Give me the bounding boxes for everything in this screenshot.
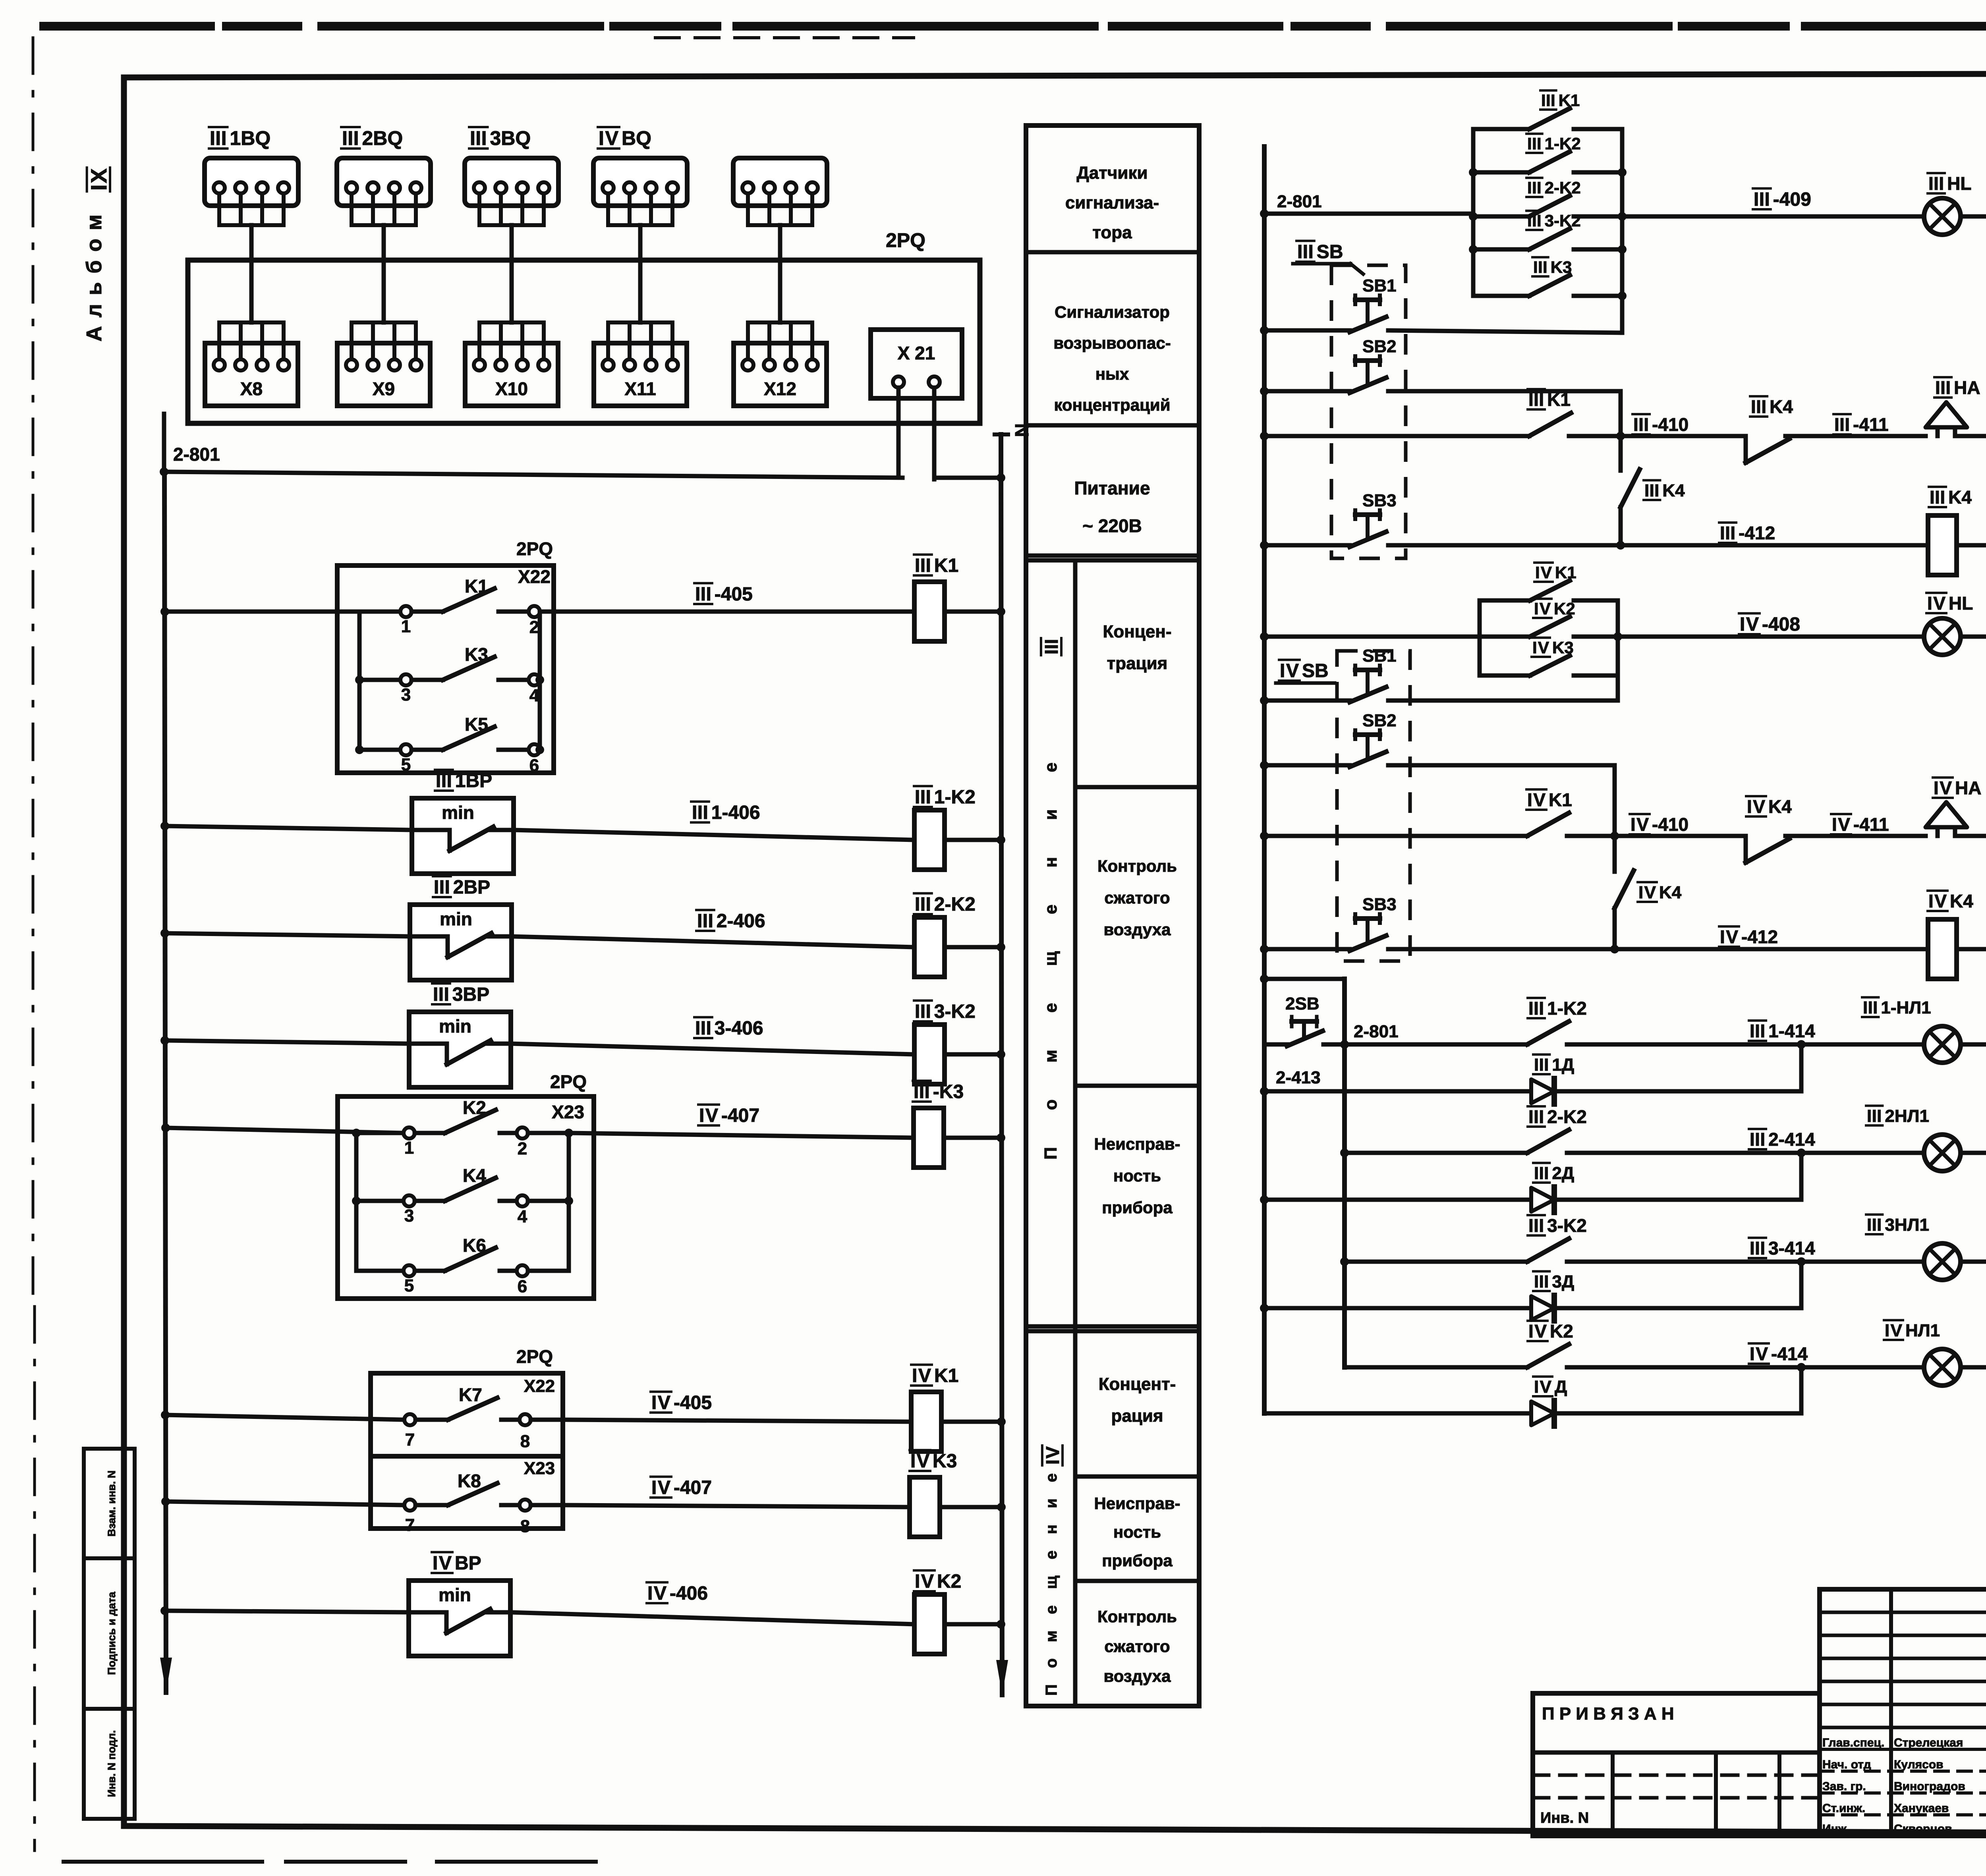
svg-text:IV: IV: [1535, 563, 1552, 582]
wire sensor to connector: [382, 225, 386, 322]
svg-text:III: III: [470, 127, 487, 149]
svg-text:IV: IV: [1534, 1377, 1552, 1397]
svg-text:-408: -408: [1762, 614, 1800, 635]
svg-text:K4: K4: [1770, 396, 1793, 417]
svg-text:K2: K2: [1554, 599, 1575, 618]
stamp column Vzam inv N: [84, 1449, 135, 1558]
wire III-412: [1621, 543, 1928, 548]
svg-text:Взам. инв. N: Взам. инв. N: [106, 1471, 118, 1537]
connector X21: [871, 330, 962, 398]
svg-text:Зав. гр.: Зав. гр.: [1822, 1780, 1866, 1793]
diode branch III2: [1260, 1153, 1801, 1212]
legend koncentracija III: [1103, 622, 1171, 673]
legend neispravnost III: [1094, 1135, 1180, 1217]
rung IV K1 horn: [1260, 832, 1269, 840]
svg-text:-405: -405: [674, 1392, 712, 1413]
sensor IVBQ: [593, 127, 687, 225]
legend datchiki: [1065, 163, 1159, 242]
svg-text:III: III: [915, 787, 931, 808]
rung III K1 horn: [1260, 432, 1269, 440]
label IV SB: [1276, 660, 1335, 683]
svg-text:K3: K3: [465, 644, 488, 665]
svg-text:IV: IV: [915, 1571, 934, 1592]
label III SB: [1293, 241, 1363, 274]
svg-text:K1: K1: [1549, 789, 1572, 810]
contact box X23 K8: [371, 1456, 563, 1536]
svg-text:III: III: [1754, 189, 1770, 210]
svg-text:трация: трация: [1107, 654, 1168, 673]
svg-text:-411: -411: [1853, 814, 1889, 835]
svg-text:2: 2: [518, 1139, 527, 1158]
drawing frame: [121, 77, 127, 1826]
rung III-405: [160, 607, 169, 616]
svg-text:2-K2: 2-K2: [1547, 1106, 1587, 1127]
wire bus jog 2-801: [1264, 977, 1345, 981]
svg-text:-412: -412: [1741, 926, 1778, 947]
sensor III1BQ: [205, 127, 298, 225]
legend kontrol szhatogo IV: [1097, 1607, 1177, 1685]
svg-text:III: III: [915, 1001, 931, 1022]
svg-text:Концен-: Концен-: [1103, 622, 1171, 641]
svg-text:III: III: [1867, 1215, 1882, 1235]
rung lamp IV contact: [1345, 1321, 1806, 1372]
svg-text:III: III: [1528, 389, 1544, 410]
rung lamp III2 contact: [1340, 1106, 1806, 1157]
svg-text:Концент-: Концент-: [1099, 1374, 1176, 1394]
svg-text:Инв. N подл.: Инв. N подл.: [106, 1730, 118, 1797]
svg-text:III: III: [342, 127, 359, 149]
svg-text:III: III: [1534, 1164, 1549, 1183]
connector X10: [465, 322, 558, 406]
node N tick: [995, 432, 1008, 436]
svg-text:III: III: [914, 1081, 930, 1102]
svg-text:K4: K4: [463, 1165, 486, 1186]
svg-text:сжатого: сжатого: [1104, 1637, 1170, 1656]
svg-text:-407: -407: [721, 1105, 759, 1126]
svg-text:III: III: [1534, 1272, 1549, 1291]
sensor III3BQ: [465, 127, 558, 225]
rung IV-407b: [161, 1497, 170, 1506]
svg-text:III: III: [1720, 523, 1735, 543]
rung IV-405: [161, 1411, 170, 1419]
svg-text:BQ: BQ: [622, 127, 651, 149]
svg-text:Виноградов: Виноградов: [1894, 1780, 1965, 1793]
wire horn IV to N: [1955, 834, 1986, 838]
diode branch III3: [1260, 1262, 1801, 1321]
svg-text:-411: -411: [1853, 414, 1889, 435]
svg-text:III: III: [1633, 414, 1649, 435]
svg-text:III: III: [1534, 1055, 1549, 1075]
svg-text:IV: IV: [647, 1583, 667, 1604]
stamp column Podpis i data: [84, 1558, 135, 1709]
wire lamp IV to N: [1961, 635, 1986, 639]
rung III3-406: [160, 1036, 169, 1045]
svg-text:4: 4: [518, 1207, 527, 1226]
svg-text:IV: IV: [1747, 796, 1765, 817]
svg-text:III: III: [433, 984, 449, 1005]
svg-text:3: 3: [404, 1206, 414, 1226]
svg-text:2-414: 2-414: [1768, 1129, 1815, 1150]
svg-text:2Д: 2Д: [1552, 1164, 1574, 1183]
svg-text:Инв. N: Инв. N: [1540, 1810, 1589, 1826]
rung IV-408: [1260, 632, 1269, 641]
svg-text:ность: ность: [1113, 1166, 1161, 1185]
svg-text:III: III: [695, 584, 711, 605]
wire SB2 jog down: [1619, 391, 1623, 436]
svg-text:2-K2: 2-K2: [934, 894, 976, 915]
rung IV-406: [160, 1606, 169, 1615]
svg-text:1: 1: [401, 617, 411, 636]
svg-text:7: 7: [405, 1430, 415, 1449]
svg-text:III: III: [1751, 396, 1766, 417]
svg-text:III: III: [1527, 211, 1542, 230]
svg-text:2SB: 2SB: [1285, 994, 1319, 1013]
svg-text:BP: BP: [455, 1553, 481, 1574]
svg-text:K1: K1: [465, 576, 488, 596]
wire coil to N: [941, 1420, 1001, 1424]
wire coil to N: [945, 838, 1001, 842]
wire X21 to N: [932, 388, 937, 479]
svg-text:min: min: [439, 1016, 471, 1036]
svg-text:Ханукаев: Ханукаев: [1894, 1802, 1949, 1815]
legend kontrol szhatogo III: [1097, 857, 1177, 939]
svg-text:2-413: 2-413: [1276, 1068, 1321, 1087]
svg-text:III: III: [1863, 998, 1878, 1017]
wire IV-407a: [569, 1133, 914, 1138]
svg-text:min: min: [440, 909, 472, 929]
svg-text:-407: -407: [674, 1477, 712, 1498]
svg-text:III: III: [695, 1018, 711, 1039]
svg-text:K2: K2: [937, 1571, 961, 1592]
svg-text:П Р И В Я З А Н: П Р И В Я З А Н: [1542, 1704, 1674, 1724]
svg-text:2-801: 2-801: [1277, 192, 1322, 211]
contact box 2PQ X22 K1 K3 K5: [337, 538, 554, 775]
svg-text:K4: K4: [1662, 481, 1685, 500]
svg-text:III: III: [1750, 1021, 1765, 1041]
legend neispravnost IV: [1094, 1494, 1180, 1570]
wire coil to N: [945, 610, 1001, 614]
svg-text:1-K2: 1-K2: [934, 787, 976, 808]
svg-text:3-406: 3-406: [715, 1018, 763, 1039]
svg-text:2-801: 2-801: [173, 444, 220, 465]
bus 2-801 right vertical: [1262, 147, 1267, 1413]
bus line 1 vertical: [164, 472, 166, 1693]
svg-text:8: 8: [520, 1432, 530, 1451]
svg-text:X12: X12: [764, 378, 796, 399]
svg-text:3-K2: 3-K2: [934, 1001, 976, 1022]
wire coil to N: [945, 945, 1001, 950]
svg-text:HA: HA: [1954, 377, 1980, 398]
svg-text:III: III: [1297, 241, 1314, 262]
wire SB2 IV jog down: [1613, 765, 1617, 836]
svg-text:3-414: 3-414: [1768, 1238, 1815, 1258]
svg-text:K1: K1: [1555, 563, 1576, 582]
svg-text:K3: K3: [1552, 638, 1574, 657]
wire sensor to connector: [638, 225, 643, 322]
svg-text:III: III: [1527, 178, 1542, 197]
svg-text:Д: Д: [1555, 1377, 1567, 1397]
rung lamp III1 contact: [1340, 998, 1806, 1049]
diode branch III1: [1260, 1044, 1801, 1104]
svg-text:IV: IV: [1042, 1446, 1063, 1465]
svg-text:Глав.спец.: Глав.спец.: [1822, 1736, 1884, 1749]
svg-text:3BQ: 3BQ: [490, 127, 531, 149]
svg-text:3: 3: [401, 685, 411, 704]
svg-text:2PQ: 2PQ: [550, 1071, 587, 1092]
svg-text:IV: IV: [599, 127, 619, 149]
svg-text:IV: IV: [651, 1392, 670, 1413]
svg-text:ных: ных: [1095, 365, 1129, 383]
svg-text:IV: IV: [910, 1451, 929, 1472]
svg-text:-410: -410: [1652, 414, 1688, 435]
diode branch IV: [1264, 1367, 1801, 1426]
svg-text:2-406: 2-406: [717, 911, 765, 932]
svg-text:K3: K3: [1551, 258, 1572, 276]
svg-text:III: III: [1527, 134, 1542, 153]
svg-text:1-K2: 1-K2: [1547, 998, 1587, 1019]
svg-text:1-414: 1-414: [1768, 1021, 1815, 1041]
svg-text:1Д: 1Д: [1552, 1055, 1574, 1075]
panel box 2PQ: [188, 260, 980, 423]
svg-text:III: III: [1930, 487, 1945, 508]
svg-text:IV: IV: [1740, 614, 1759, 635]
svg-text:1BP: 1BP: [455, 770, 492, 791]
svg-text:-406: -406: [670, 1583, 708, 1604]
svg-text:сжатого: сжатого: [1104, 888, 1170, 907]
wire III1-406: [514, 830, 914, 840]
wire III-409: [1622, 214, 1924, 219]
svg-text:SB3: SB3: [1362, 491, 1397, 510]
wire lamp to N: [1961, 214, 1986, 219]
svg-text:3Д: 3Д: [1552, 1272, 1574, 1291]
svg-text:воздуха: воздуха: [1103, 920, 1171, 939]
svg-text:X23: X23: [552, 1102, 584, 1122]
svg-text:-409: -409: [1773, 189, 1811, 210]
svg-text:III: III: [436, 770, 452, 791]
svg-text:SB2: SB2: [1362, 711, 1397, 730]
svg-text:тора: тора: [1092, 223, 1132, 242]
wire coil to N: [945, 1622, 1001, 1627]
svg-text:III: III: [1928, 173, 1944, 194]
contact box 2PQ X22 K7: [371, 1346, 563, 1456]
svg-text:K8: K8: [458, 1471, 481, 1491]
svg-text:IX: IX: [86, 168, 111, 191]
wire IV-411: [1785, 834, 1926, 838]
svg-text:3НЛ1: 3НЛ1: [1885, 1215, 1929, 1235]
svg-text:min: min: [439, 1585, 471, 1605]
button SB2 III rung: [1260, 337, 1397, 396]
svg-text:IV: IV: [1528, 1321, 1547, 1341]
svg-text:IV: IV: [1532, 638, 1549, 657]
svg-text:Нач. отд: Нач. отд: [1822, 1758, 1871, 1771]
svg-text:3-K2: 3-K2: [1545, 211, 1581, 230]
legend pomeschenie III: [1041, 638, 1062, 655]
legend signalizator: [1053, 303, 1171, 414]
wire III-411: [1785, 434, 1926, 438]
svg-text:III: III: [1528, 1215, 1544, 1236]
svg-text:IV: IV: [1527, 789, 1546, 810]
sheet bottom edge: [64, 1860, 596, 1864]
svg-text:III: III: [1541, 91, 1555, 110]
svg-text:1BQ: 1BQ: [230, 127, 271, 149]
wire sensor to connector: [778, 225, 782, 322]
svg-text:X22: X22: [518, 566, 551, 587]
svg-text:HL: HL: [1947, 173, 1971, 194]
svg-text:Датчики: Датчики: [1076, 163, 1148, 183]
svg-text:-410: -410: [1652, 814, 1688, 835]
sheet left trim line: [32, 38, 35, 1307]
svg-text:III: III: [692, 802, 708, 823]
svg-text:IV: IV: [1720, 926, 1738, 947]
button SB3 IV rung: [1260, 895, 1397, 953]
legend pomeschenie IV: [1042, 1446, 1063, 1465]
svg-text:3-K2: 3-K2: [1547, 1215, 1587, 1236]
svg-text:X11: X11: [624, 378, 656, 399]
svg-text:6: 6: [518, 1277, 527, 1296]
wire coil to N: [945, 1052, 1001, 1057]
contact bank III K1..K3: [1469, 91, 1627, 333]
wire lamp III2 to N: [1961, 1151, 1986, 1155]
connector X8: [205, 322, 298, 406]
svg-text:SB: SB: [1317, 241, 1343, 262]
svg-text:возрывоопас-: возрывоопас-: [1053, 334, 1171, 352]
svg-text:1: 1: [404, 1138, 414, 1158]
svg-text:5: 5: [404, 1276, 414, 1295]
svg-text:SB2: SB2: [1362, 337, 1397, 356]
svg-text:2BQ: 2BQ: [362, 127, 403, 149]
svg-text:III: III: [1867, 1106, 1882, 1126]
svg-text:~ 220В: ~ 220В: [1082, 515, 1142, 536]
svg-text:1-406: 1-406: [711, 802, 760, 823]
svg-text:2PQ: 2PQ: [516, 538, 553, 559]
svg-text:III: III: [1644, 481, 1659, 500]
connector X9: [337, 322, 430, 406]
wire III-405: [540, 610, 914, 614]
svg-text:HA: HA: [1955, 778, 1981, 798]
rung III2-406: [160, 929, 169, 938]
svg-text:Кулясов: Кулясов: [1894, 1758, 1943, 1771]
node 1 stub: [162, 414, 166, 472]
contact III K4 NO vertical: [1621, 436, 1685, 545]
sensor III2BQ: [337, 127, 431, 225]
svg-text:IV: IV: [1638, 883, 1656, 902]
wire coil to N: [940, 1505, 1001, 1509]
wire IV-407b: [563, 1505, 910, 1507]
svg-text:K2: K2: [463, 1097, 486, 1118]
contact III K4 NC: [1746, 396, 1793, 463]
svg-text:K4: K4: [1950, 891, 1973, 911]
svg-text:K1: K1: [1547, 389, 1571, 410]
svg-text:X8: X8: [240, 378, 263, 399]
svg-text:X23: X23: [524, 1459, 555, 1478]
svg-text:SB1: SB1: [1362, 276, 1397, 295]
svg-text:III: III: [915, 894, 931, 915]
svg-text:воздуха: воздуха: [1103, 1667, 1171, 1685]
svg-text:X22: X22: [524, 1376, 555, 1396]
legend column frame: [1026, 125, 1199, 1706]
contact box 2PQ X23 K2 K4 K6: [338, 1071, 594, 1299]
wire N link: [934, 476, 1001, 480]
svg-text:IV: IV: [433, 1553, 452, 1574]
svg-text:III: III: [210, 127, 227, 149]
connector X12: [734, 322, 827, 406]
svg-text:концентраций: концентраций: [1054, 396, 1170, 414]
wire coil IV K4 to N: [1957, 947, 1986, 952]
album IX side label: [86, 168, 111, 191]
svg-text:Контроль: Контроль: [1097, 857, 1177, 875]
svg-text:K7: K7: [459, 1384, 482, 1405]
wire lamp III1 to N: [1961, 1042, 1986, 1047]
svg-text:1-НЛ1: 1-НЛ1: [1881, 998, 1931, 1017]
svg-text:III: III: [1528, 998, 1544, 1019]
svg-text:IV: IV: [1750, 1343, 1768, 1364]
svg-text:IV: IV: [1928, 891, 1947, 911]
connector X11: [594, 322, 687, 406]
svg-text:2-801: 2-801: [1354, 1022, 1399, 1041]
svg-text:IV: IV: [1631, 814, 1649, 835]
svg-text:-412: -412: [1739, 523, 1775, 543]
contact bank IV K1..K3: [1480, 563, 1622, 701]
button SB1 IV rung: [1260, 646, 1397, 705]
button SB1 III rung: [1260, 276, 1397, 335]
svg-text:7: 7: [405, 1515, 415, 1535]
svg-text:1-K2: 1-K2: [1545, 134, 1581, 153]
svg-text:SB3: SB3: [1362, 895, 1397, 914]
svg-text:K1: K1: [1559, 91, 1580, 110]
stamp column Inv N podl: [84, 1709, 135, 1819]
svg-text:ность: ность: [1113, 1523, 1161, 1541]
button SB2 IV rung: [1260, 711, 1397, 770]
svg-text:5: 5: [401, 755, 411, 774]
svg-text:2-K2: 2-K2: [1545, 178, 1581, 197]
svg-text:Инж.: Инж.: [1822, 1822, 1850, 1835]
svg-text:III: III: [1528, 1106, 1544, 1127]
svg-text:III: III: [1834, 414, 1850, 435]
svg-text:2PQ: 2PQ: [886, 229, 925, 251]
svg-text:K4: K4: [1768, 796, 1792, 817]
svg-text:Стрелецкая: Стрелецкая: [1894, 1736, 1963, 1749]
wire IV-412: [1615, 947, 1928, 952]
svg-text:рация: рация: [1111, 1406, 1163, 1426]
svg-text:НЛ1: НЛ1: [1905, 1321, 1940, 1340]
svg-text:Неисправ-: Неисправ-: [1094, 1494, 1180, 1513]
legend koncentracija IV: [1099, 1374, 1176, 1426]
wire III3-406: [511, 1044, 914, 1054]
wire lamp IV to N: [1961, 1365, 1986, 1370]
svg-text:прибора: прибора: [1102, 1551, 1173, 1570]
svg-text:Неисправ-: Неисправ-: [1094, 1135, 1180, 1153]
rung IV-407a: [161, 1123, 170, 1132]
wire III2-406: [512, 936, 914, 947]
title block signature grid: [1820, 1589, 1986, 1836]
svg-text:X 21: X 21: [898, 343, 935, 363]
svg-text:X10: X10: [495, 378, 528, 399]
svg-text:Скворцов: Скворцов: [1894, 1822, 1952, 1835]
contact IV K4 NO vertical: [1615, 836, 1682, 949]
svg-text:K4: K4: [1948, 487, 1972, 508]
svg-text:IV: IV: [1934, 778, 1952, 798]
rung lamp III3 contact: [1340, 1215, 1806, 1266]
svg-text:III: III: [1533, 258, 1547, 276]
svg-text:K5: K5: [465, 714, 488, 735]
svg-text:-K3: -K3: [933, 1081, 964, 1102]
wire horn to N: [1955, 434, 1986, 438]
svg-text:2PQ: 2PQ: [516, 1346, 553, 1367]
svg-text:III: III: [1041, 639, 1062, 654]
wire III-410: [1621, 434, 1746, 438]
svg-text:прибора: прибора: [1102, 1198, 1173, 1217]
svg-text:III: III: [915, 555, 931, 576]
